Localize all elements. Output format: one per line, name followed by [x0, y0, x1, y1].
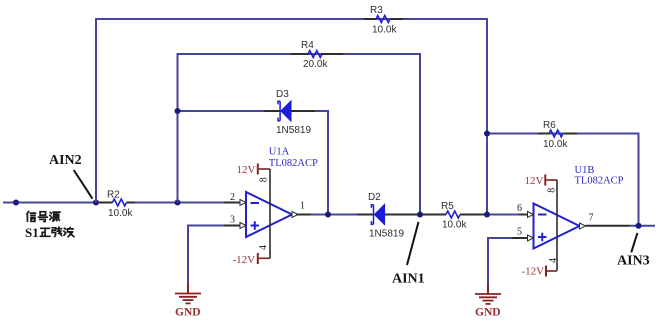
- junction: AIN3 node dot: [636, 223, 642, 229]
- svg-text:2: 2: [230, 192, 235, 203]
- U1A +12V power symbol: [237, 164, 271, 176]
- svg-text:8: 8: [547, 188, 558, 193]
- junction: source tap dot: [13, 200, 19, 206]
- diode D2: [371, 204, 384, 224]
- svg-text:R3: R3: [370, 5, 383, 16]
- svg-text:5: 5: [517, 227, 522, 238]
- svg-text:R4: R4: [301, 40, 314, 51]
- svg-text:1N5819: 1N5819: [276, 125, 311, 136]
- junction: R4 branch dot: [175, 200, 181, 206]
- svg-text:TL082ACP: TL082ACP: [575, 175, 624, 186]
- svg-text:8: 8: [259, 177, 270, 182]
- svg-text:R2: R2: [107, 190, 120, 201]
- resistor R2: [113, 199, 127, 206]
- resistor R5: [446, 211, 460, 218]
- U1A pin 8 and pin 4 wire: [269, 169, 271, 258]
- U1B output pin 7 arrow: [580, 223, 586, 229]
- wire: R3 feedback loop (left vertical, top run, right vertical): [96, 19, 487, 215]
- svg-text:10.0k: 10.0k: [108, 208, 133, 219]
- source label: 信号源 (hand-drawn strokes): [27, 211, 60, 221]
- wire: R6 feedback loop over U1B: [487, 134, 639, 226]
- svg-text:-12V: -12V: [233, 254, 256, 266]
- svg-text:S1: S1: [25, 225, 39, 240]
- op-amp U1A: [246, 192, 292, 237]
- svg-text:AIN3: AIN3: [617, 254, 650, 269]
- resistor R4: [308, 51, 322, 58]
- source label: S1正弦波 (hand-drawn strokes): [25, 225, 74, 240]
- junction: AIN2 node dot: [93, 200, 99, 206]
- svg-text:R5: R5: [441, 201, 454, 212]
- svg-text:10.0k: 10.0k: [543, 139, 568, 150]
- svg-text:-12V: -12V: [522, 266, 545, 278]
- ground symbol GND2: [475, 294, 501, 304]
- ground symbol GND1: [175, 294, 201, 304]
- U1B pin 5 input arrow: [528, 235, 534, 241]
- junction: D3 branch tap dot: [175, 108, 181, 114]
- svg-text:10.0k: 10.0k: [442, 220, 467, 231]
- U1B pin 6 input arrow: [528, 212, 534, 218]
- svg-text:7: 7: [589, 213, 594, 224]
- svg-text:4: 4: [548, 258, 559, 263]
- svg-text:20.0k: 20.0k: [303, 59, 328, 70]
- svg-text:U1B: U1B: [575, 165, 595, 176]
- svg-text:GND: GND: [475, 307, 501, 319]
- junction: AIN1 node dot: [417, 212, 423, 218]
- wire: R4 feedback loop: [178, 54, 421, 215]
- U1A -12V power symbol: [233, 253, 271, 266]
- junction: R5-R3-U1B pin6 node dot: [484, 212, 490, 218]
- svg-text:TL082ACP: TL082ACP: [269, 158, 318, 169]
- U1B +12V power symbol: [525, 175, 558, 188]
- resistor R3: [376, 16, 390, 23]
- svg-text:GND: GND: [175, 307, 201, 319]
- svg-text:D2: D2: [368, 192, 381, 203]
- U1A output pin 1 arrow: [292, 212, 298, 218]
- wire: U1A pin 3 to ground: [188, 226, 240, 294]
- svg-text:10.0k: 10.0k: [372, 25, 397, 36]
- svg-text:12V: 12V: [237, 164, 256, 176]
- wire: U1A output line through D2 and R5 to U1B pin 6: [296, 214, 528, 216]
- svg-text:R6: R6: [543, 120, 556, 131]
- U1B pin 8 and pin 4 wire: [556, 180, 558, 271]
- svg-text:1N5819: 1N5819: [369, 229, 404, 240]
- resistor R6: [549, 130, 563, 137]
- AIN3 leader line: [631, 233, 637, 252]
- svg-text:3: 3: [230, 215, 235, 226]
- op-amp U1B: [534, 204, 580, 249]
- U1B -12V power symbol: [522, 266, 558, 278]
- wire: D3 branch: [178, 111, 329, 215]
- wire: U1B pin 5 to ground: [488, 238, 528, 294]
- wire: signal source input line to U1A pin 2: [3, 202, 240, 204]
- svg-text:12V: 12V: [525, 175, 544, 187]
- svg-text:AIN1: AIN1: [392, 272, 425, 287]
- svg-text:1: 1: [300, 201, 305, 212]
- U1A pin 3 input arrow: [240, 223, 246, 229]
- AIN2 leader line: [74, 170, 93, 199]
- svg-text:6: 6: [517, 203, 522, 214]
- svg-text:4: 4: [258, 245, 269, 250]
- wire: U1B output to AIN3: [586, 225, 656, 227]
- junction: R6 tap on R3 vertical dot: [484, 131, 490, 137]
- U1A pin 2 input arrow: [240, 200, 246, 206]
- AIN1 leader line: [407, 222, 419, 265]
- diode D3: [278, 101, 291, 121]
- svg-text:D3: D3: [276, 89, 289, 100]
- svg-text:AIN2: AIN2: [49, 153, 82, 168]
- junction: U1A output / D3 node dot: [325, 212, 331, 218]
- svg-text:U1A: U1A: [269, 147, 290, 158]
